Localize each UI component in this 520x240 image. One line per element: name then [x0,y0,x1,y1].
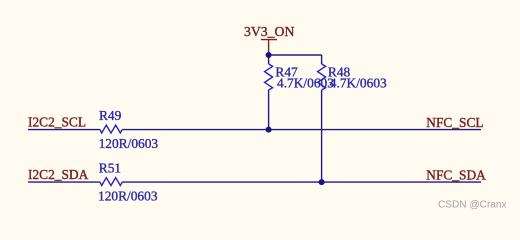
svg-text:I2C2_SCL: I2C2_SCL [28,114,86,129]
svg-text:120R/0603: 120R/0603 [99,136,159,151]
svg-text:CSDN @Cranx: CSDN @Cranx [438,200,507,211]
junction dot at power node [266,52,272,58]
junction dot at SDA/R48 node [319,179,325,185]
wire: power node to corner (horizontal) [269,54,322,56]
wire: R47 top lead [268,55,270,64]
wire: SCL right segment [122,129,481,131]
wire: R48 bottom lead crossing SCL down to SDA [321,90,323,182]
svg-text:120R/0603: 120R/0603 [98,189,158,204]
wire: SDA left segment [28,181,100,183]
wire: SDA right segment [122,181,481,183]
power port 3V3_ON bar [261,39,277,41]
power port 3V3_ON stub [268,40,270,55]
svg-text:3V3_ON: 3V3_ON [244,24,294,39]
svg-text:R49: R49 [99,108,122,123]
svg-text:NFC_SDA: NFC_SDA [426,167,486,182]
resistor R47 zigzag [265,64,273,90]
svg-text:4.7K/0603: 4.7K/0603 [330,76,387,91]
resistor R51 zigzag [100,178,122,186]
wire: SCL left segment [28,129,100,131]
wire: R48 top lead (corner down) [321,55,323,64]
resistor R48 zigzag [318,64,326,90]
svg-text:I2C2_SDA: I2C2_SDA [28,167,89,182]
svg-text:R51: R51 [99,161,121,176]
junction dot at SCL/R47 node [266,127,272,133]
wire: R47 bottom lead [268,90,270,130]
svg-text:NFC_SCL: NFC_SCL [426,115,483,130]
resistor R49 zigzag [100,125,122,133]
